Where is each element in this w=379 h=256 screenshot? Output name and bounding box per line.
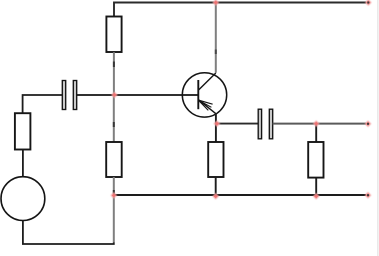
pin stub tick on wire bbox=[215, 50, 217, 55]
wire: R3 bottom to bottom rail node (gray) bbox=[113, 177, 115, 195]
transistor Q1 emitter arrow barb 2 bbox=[199, 100, 212, 107]
wire: load node down to R5 bbox=[315, 124, 317, 142]
resistor R4 (emitter, middle right) bbox=[208, 142, 223, 177]
transistor Q1 emitter arrow barb 3 bbox=[199, 101, 209, 111]
node: bottom rail right open end bbox=[365, 192, 372, 199]
wire: emitter down to output node bbox=[215, 114, 217, 143]
capacitor C1 plate 2 bbox=[73, 81, 76, 110]
source V1 (signal source circle) bbox=[1, 177, 45, 221]
wire end pip bbox=[367, 2, 369, 4]
window right edge border bbox=[377, 0, 379, 256]
node: top rail right open end bbox=[365, 0, 372, 6]
transistor Q1 emitter arrow barb 1 bbox=[199, 100, 213, 104]
node: bottom left node bbox=[110, 192, 117, 199]
wire: source bottom to ground run bbox=[23, 221, 114, 245]
node: base node bbox=[111, 92, 118, 99]
wire: R4 bottom to bottom rail bbox=[215, 177, 217, 195]
wire: VCC top rail bbox=[114, 3, 366, 17]
wire: R2 bottom to source top bbox=[22, 150, 24, 178]
resistor R2 (source series, left) bbox=[15, 113, 31, 149]
wire: output node to C2 left plate bbox=[217, 123, 259, 125]
node: bottom rail junction at R5 bbox=[313, 193, 320, 200]
pin stub tick on wire bbox=[113, 190, 115, 194]
wire: bottom node down to ground run (gray) bbox=[113, 195, 115, 243]
capacitor C2 (output coupling) plate 1 bbox=[258, 109, 261, 139]
node: bottom rail junction at R4 bbox=[212, 193, 219, 200]
capacitor C1 (input coupling) plate 1 bbox=[62, 81, 65, 110]
resistor R5 (load, right) bbox=[308, 142, 323, 178]
node: emitter output node bbox=[214, 120, 221, 127]
resistor R3 (base bias lower, middle) bbox=[106, 142, 122, 177]
transistor Q1 emitter stroke bbox=[199, 100, 216, 114]
node: load junction bbox=[313, 120, 320, 127]
wire: C2 right plate to open end (gray) bbox=[273, 123, 367, 125]
wire: input cap to transistor base bbox=[77, 94, 199, 96]
wire end pip bbox=[367, 123, 369, 125]
wire: R5 bottom to bottom rail bbox=[315, 178, 317, 195]
wire: left source branch top corner bbox=[23, 95, 63, 113]
transistor Q1 (PNP) body circle bbox=[182, 73, 226, 117]
node: top rail junction bbox=[212, 0, 219, 6]
wire: top rail junction down to transistor collector (gray) bbox=[215, 3, 217, 73]
wire: ground bottom rail bbox=[114, 194, 366, 196]
wire end pip bbox=[367, 194, 369, 196]
capacitor C2 plate 2 bbox=[269, 109, 272, 139]
wire: base node down to R3 (gray) bbox=[113, 95, 115, 142]
wire: R1 bottom to base node (gray) bbox=[113, 52, 115, 95]
resistor R1 (collector bias, top left) bbox=[106, 17, 121, 53]
node: output right open end bbox=[365, 120, 372, 127]
transistor Q1 base bar bbox=[197, 80, 199, 109]
transistor Q1 collector stroke bbox=[198, 73, 216, 90]
pin stub tick on wire bbox=[113, 122, 115, 127]
pin stub tick on wire bbox=[113, 62, 115, 68]
